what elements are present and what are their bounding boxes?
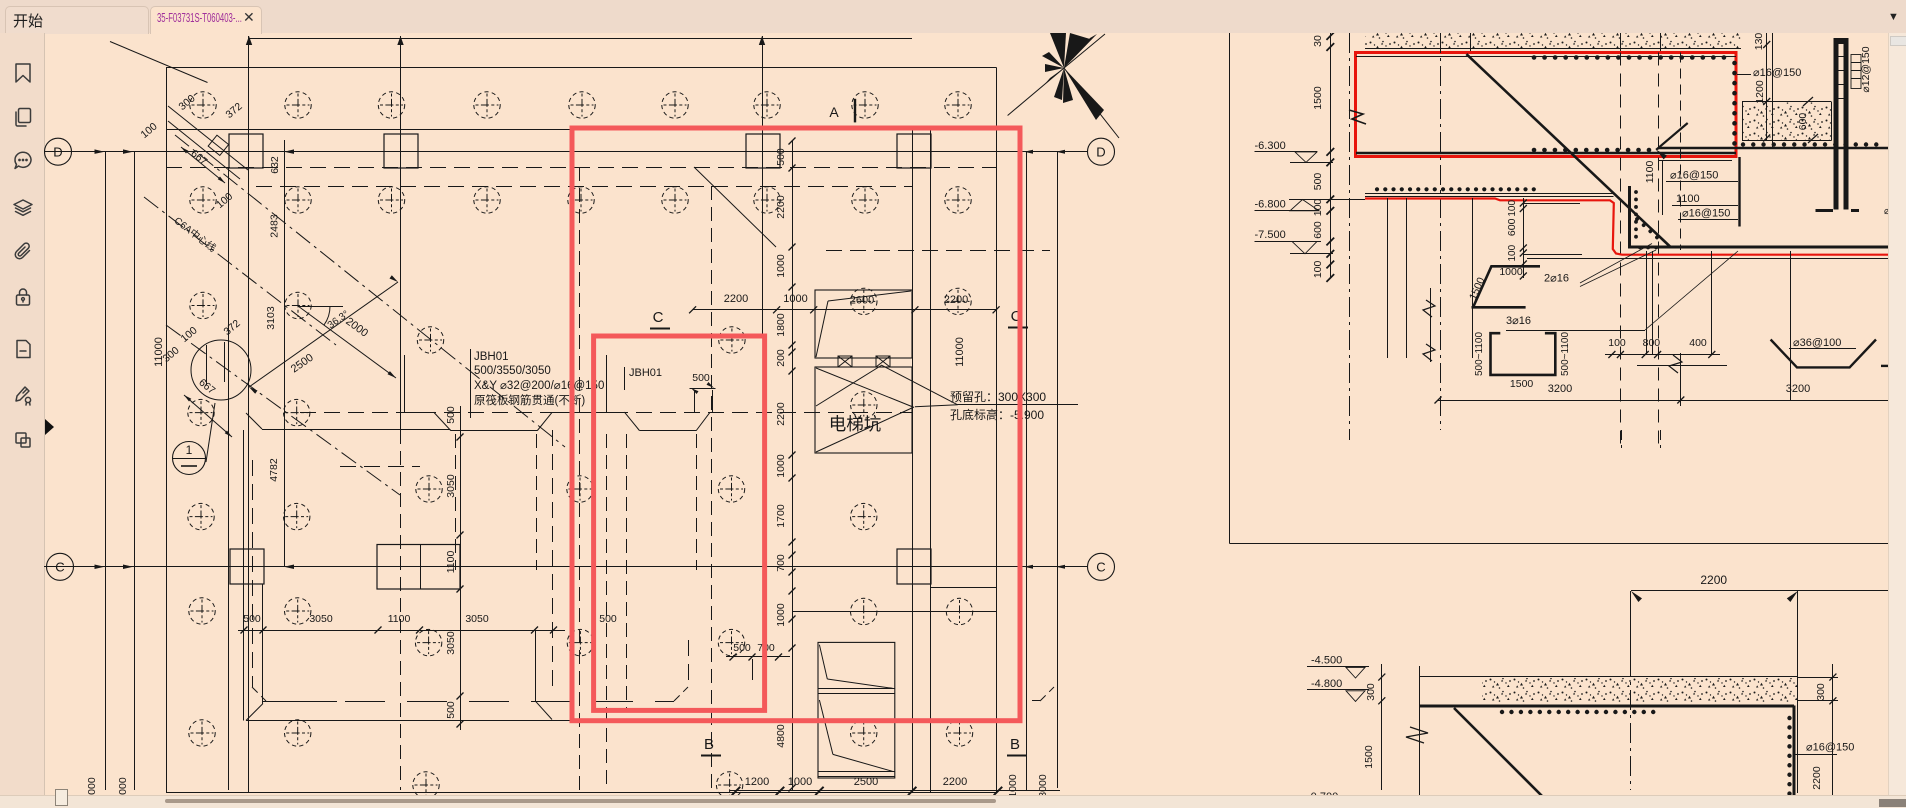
mid dim chain x1523 — [1523, 198, 1525, 278]
sidebar icon paperclip — [12, 241, 34, 263]
svg-text:372: 372 — [224, 100, 245, 121]
pile row y301.4 — [851, 288, 877, 314]
dots row far right — [1743, 142, 1886, 146]
svg-text:1000: 1000 — [1007, 774, 1019, 795]
column square D1 — [229, 134, 263, 168]
left wall vertical — [1419, 666, 1421, 807]
pedestal dashed vertical x537 — [536, 434, 538, 570]
sidebar icon overlap — [12, 429, 34, 451]
JBH01 label inner — [624, 367, 626, 390]
svg-text:C6A中心线: C6A中心线 — [172, 214, 219, 255]
svg-text:500~1100: 500~1100 — [1474, 332, 1485, 376]
scrollbar corner dark box — [1879, 799, 1906, 807]
dim row 100 800 400 — [1605, 354, 1720, 356]
leader from detail bubble — [206, 403, 215, 462]
chain connector lines right — [1523, 203, 1580, 205]
stirrup hook rect — [1851, 55, 1861, 89]
dots on main diagonal lower part — [1637, 219, 1663, 243]
svg-text:600: 600 — [1797, 113, 1809, 131]
svg-text:2200: 2200 — [944, 294, 968, 306]
svg-text:3050: 3050 — [465, 613, 489, 625]
svg-text:2500: 2500 — [289, 352, 316, 376]
horizontal scrollbar thumb — [165, 799, 996, 803]
pile row y642.6 — [415, 629, 441, 655]
big bent bar trapezoid — [1771, 340, 1876, 368]
preformed hole box 2 — [876, 356, 890, 367]
pile cap dashed y467 segment — [340, 466, 420, 468]
svg-text:2600: 2600 — [850, 295, 874, 307]
slab big diagonal — [1454, 708, 1553, 807]
wall thick vertical — [1628, 186, 1631, 246]
svg-text:D: D — [53, 145, 62, 160]
plan frame right edge — [996, 68, 998, 794]
svg-text:500: 500 — [599, 613, 617, 625]
svg-text:500~1100: 500~1100 — [1560, 332, 1571, 376]
svg-text:300: 300 — [1815, 683, 1827, 701]
dim line x284 — [284, 140, 286, 567]
red waterproof polyline — [1365, 199, 1906, 255]
toolbar dropdown arrow — [1888, 11, 1899, 23]
dash-dot vertical x1440 — [1440, 33, 1442, 430]
pedestal outline inner — [606, 355, 608, 412]
bottom thick line — [1628, 246, 1906, 249]
extension verticals 2200 — [1630, 591, 1632, 676]
tab Start label — [13, 10, 43, 31]
svg-text:372: 372 — [222, 317, 243, 338]
svg-text:4782: 4782 — [268, 458, 280, 482]
bent bar detail 1500 — [1474, 266, 1541, 306]
pile cap dashed outline bottom y701 — [345, 701, 674, 703]
C6A centerline dash-dot diagonal — [144, 197, 336, 345]
right vertical scrollbar strip — [1888, 33, 1906, 795]
dim diagonal 2500 — [249, 282, 398, 387]
svg-text:⌀16@150: ⌀16@150 — [1806, 742, 1854, 754]
note underline — [958, 404, 1078, 406]
svg-text:500: 500 — [445, 701, 457, 719]
wall vertical x244 lower — [243, 430, 245, 721]
svg-text:JBH01: JBH01 — [629, 367, 662, 379]
dim 2200 bottom right partial — [1798, 590, 1906, 592]
svg-text:500: 500 — [733, 642, 751, 654]
svg-text:11000: 11000 — [954, 337, 966, 367]
dash-dot vertical x1343 — [1349, 33, 1351, 440]
svg-text:C: C — [653, 309, 664, 326]
svg-text:原筏板钢筋贯通(不断): 原筏板钢筋贯通(不断) — [474, 393, 585, 407]
dim 667 top-left — [181, 147, 225, 183]
svg-text:C: C — [55, 560, 64, 575]
svg-text:1000: 1000 — [788, 776, 812, 788]
svg-text:1: 1 — [186, 443, 193, 457]
elevator pit upper rect — [815, 290, 912, 358]
vertical x1026 — [1026, 152, 1028, 790]
svg-text:⌀36@100: ⌀36@100 — [1793, 337, 1841, 349]
grid dashed vertical x400 lower half — [400, 430, 402, 790]
slab concrete stipple — [1482, 678, 1797, 702]
top horizontal line y38.5 — [249, 38, 912, 40]
pile cap solid edge y701 left — [262, 701, 337, 703]
svg-text:-6.800: -6.800 — [1255, 199, 1286, 211]
vertical scrollbar thumb — [1890, 36, 1906, 46]
svg-text:1700: 1700 — [775, 504, 787, 528]
elevator pit lower diagonals — [816, 368, 913, 407]
svg-text:1500: 1500 — [1312, 86, 1324, 110]
svg-text:632: 632 — [269, 156, 281, 174]
svg-text:130: 130 — [1753, 33, 1765, 50]
short dash before right chamfer — [1032, 700, 1040, 702]
wall vertical x930 — [930, 130, 932, 793]
dim row 2200 1000 2600 2200 — [693, 309, 997, 311]
plan frame left edge — [166, 68, 168, 794]
svg-text:3200: 3200 — [1786, 383, 1810, 395]
svg-text:500/3550/3050: 500/3550/3050 — [474, 365, 551, 377]
dim row 500 3050 1100 3050 500 — [238, 630, 565, 632]
corner chamfer solid — [246, 413, 262, 429]
pile row y340 — [417, 327, 443, 353]
svg-text:2200: 2200 — [1700, 573, 1727, 587]
leaders from 2phi16 — [1580, 244, 1652, 284]
sidebar icon comment — [12, 150, 34, 172]
U channel bar detail — [1491, 333, 1556, 375]
svg-text:300: 300 — [1365, 683, 1377, 701]
left sidebar — [0, 33, 45, 795]
pile cap dashed top edge y412 — [300, 412, 912, 414]
svg-text:A: A — [829, 104, 839, 120]
svg-text:500: 500 — [445, 406, 457, 424]
grid bubble C right — [1088, 553, 1115, 580]
wall dots column — [1634, 192, 1638, 244]
compass radiating line left — [1008, 68, 1064, 116]
grid line D horizontal — [44, 151, 1088, 153]
active tab label — [157, 11, 242, 25]
section area left border — [1229, 33, 1231, 544]
svg-text:1500: 1500 — [1467, 276, 1488, 302]
svg-text:D: D — [1096, 145, 1105, 160]
left dim chain vertical — [1330, 33, 1332, 278]
grid bubble D right — [1088, 138, 1115, 165]
pile row y733 — [189, 720, 215, 746]
leader arrow diagonal — [1656, 123, 1688, 150]
dim 500 700 horizontal — [726, 656, 790, 658]
right rebar dots column — [1732, 63, 1737, 152]
column square D3 — [746, 134, 780, 168]
slab top line 2 — [1365, 196, 1614, 198]
svg-text:2483: 2483 — [269, 214, 281, 238]
sidebar icon lock — [12, 286, 34, 308]
pit dashed vertical x626 — [626, 434, 628, 712]
pile row y516.6 — [188, 503, 214, 529]
stair wedge upper — [819, 645, 827, 679]
pile cap dashed line y251 — [826, 250, 1050, 252]
sidebar icon layers — [12, 197, 34, 219]
compass radiating line right — [1064, 68, 1119, 138]
sidebar icon bookmark — [12, 62, 34, 84]
svg-text:400: 400 — [1689, 337, 1707, 349]
svg-text:3⌀16: 3⌀16 — [1506, 315, 1531, 327]
svg-text:4800: 4800 — [775, 724, 787, 748]
pile cap solid vertical x535.7 — [535, 631, 537, 701]
pile row y305.5 — [190, 292, 216, 318]
svg-text:X&Y ⌀32@200/⌀16@150: X&Y ⌀32@200/⌀16@150 — [474, 380, 604, 392]
svg-text:3000: 3000 — [117, 777, 129, 795]
bottom horizontal scrollbar strip — [0, 795, 1906, 808]
dim chain x460 rotated — [460, 406, 462, 730]
svg-text:500: 500 — [775, 148, 787, 166]
dim vertical x1382 — [1381, 664, 1383, 790]
beam top thin line inside red — [1356, 56, 1736, 58]
svg-text:1500: 1500 — [1510, 378, 1534, 390]
svg-text:1800: 1800 — [775, 313, 787, 337]
column square C1 — [230, 549, 264, 584]
wall break line x1430 — [1430, 288, 1432, 362]
second dash-dot diagonal — [166, 325, 400, 495]
dots along corner diagonal — [1640, 246, 1659, 250]
pile cap chamfer bottom-left — [252, 687, 266, 701]
slab top thin line — [1419, 676, 1798, 678]
wall vertical x762 with top arrow — [762, 36, 764, 336]
svg-text:-4.800: -4.800 — [1311, 678, 1342, 690]
dim 2200 bottom section — [1631, 590, 1798, 592]
svg-text:100: 100 — [1507, 200, 1518, 217]
solid edge y429 — [262, 429, 451, 431]
solid bottom edge y720.5 — [246, 720, 575, 722]
beam bottom thick line — [1356, 152, 1736, 155]
svg-text:100: 100 — [139, 120, 160, 141]
svg-text:30: 30 — [1312, 35, 1324, 47]
dash vertical x1681 — [1680, 53, 1682, 251]
foundation plan outer frame top edge — [166, 67, 997, 69]
leader from 3phi16 — [1506, 330, 1645, 332]
thick vertical x1739 — [1738, 157, 1740, 227]
detail bubble 1 — [173, 442, 206, 475]
wall top edge y129.5 — [166, 129, 575, 131]
slab right thin vertical — [1797, 677, 1799, 793]
wall edge vertical x263 lower — [262, 584, 264, 704]
verticals under slab — [1387, 198, 1389, 358]
stair wedge lower — [819, 700, 833, 754]
leader lines to hole note — [882, 365, 958, 404]
tab Start — [5, 6, 149, 34]
pedestal outline left — [404, 355, 406, 412]
svg-text:3050: 3050 — [309, 613, 333, 625]
svg-text:⌀12@150: ⌀12@150 — [1860, 46, 1872, 92]
bottom dim row 1200 1000 2500 2200 — [730, 790, 1060, 792]
svg-text:600: 600 — [1312, 221, 1324, 239]
dash-dot vertical x1621 — [1620, 53, 1622, 449]
stair flight lines — [818, 688, 895, 690]
svg-text:2200: 2200 — [943, 776, 967, 788]
pit horizontal line y611 — [792, 611, 996, 613]
grid line C horizontal — [44, 566, 1088, 568]
thin vertical x1772 — [1772, 33, 1774, 148]
compass north arrow pinwheel — [1050, 33, 1066, 68]
dim chain vertical x792 — [792, 140, 794, 790]
pile row y611 — [189, 598, 215, 624]
svg-text:1000: 1000 — [783, 293, 807, 305]
slab right thick vertical — [1793, 706, 1796, 808]
main diagonal rebar — [1466, 54, 1670, 246]
elevator pit upper diagonals — [816, 301, 828, 357]
column double square C2 — [377, 545, 460, 590]
slab dots row — [1502, 710, 1662, 714]
pile row y105 — [190, 92, 216, 118]
svg-text:800: 800 — [1643, 337, 1661, 349]
grid bubble C left — [47, 553, 74, 580]
break symbol mid dim — [1669, 355, 1682, 373]
svg-text:500: 500 — [692, 372, 710, 384]
break zigzag on red left edge — [1349, 110, 1366, 124]
svg-text:100: 100 — [1608, 337, 1626, 349]
svg-text:1000: 1000 — [775, 454, 787, 478]
pile row y412.6 — [188, 399, 214, 425]
pile row y785 — [413, 772, 439, 798]
pile row y200 — [190, 187, 216, 213]
concrete stipple band top — [1365, 33, 1741, 49]
pile row y611.5 — [851, 598, 877, 624]
svg-text:100: 100 — [1507, 244, 1518, 261]
svg-text:C: C — [1096, 560, 1105, 575]
grid bubble D left — [45, 138, 72, 165]
inner diagonal near red box — [694, 167, 776, 247]
svg-text:11000: 11000 — [153, 337, 165, 367]
slash arrow on patch — [1803, 97, 1813, 106]
upper thick line right — [1659, 147, 1906, 150]
dim 500 inner — [690, 388, 716, 390]
right edge bar stub — [1881, 365, 1888, 367]
svg-text:1200: 1200 — [745, 776, 769, 788]
pile row y405 — [851, 392, 877, 418]
solid corner chamfer bottom-left — [246, 704, 263, 721]
dim vertical right x1833 — [1832, 664, 1834, 807]
wall edge vertical x229 — [228, 168, 230, 790]
wall vertical x912 — [912, 130, 914, 793]
svg-text:1100: 1100 — [1676, 193, 1700, 205]
compass radiating line up-right — [1064, 34, 1105, 68]
svg-text:预留孔：300X300: 预留孔：300X300 — [950, 390, 1046, 404]
svg-text:孔底标高：-5.900: 孔底标高：-5.900 — [950, 407, 1044, 422]
svg-text:⌀16@150: ⌀16@150 — [1753, 67, 1801, 79]
pile cap dashed vertical x688 — [688, 640, 690, 687]
mid dots row left — [1377, 187, 1540, 191]
svg-text:⌀16@150: ⌀16@150 — [1670, 170, 1718, 182]
dim 667 second — [184, 395, 232, 437]
svg-text:100: 100 — [214, 190, 235, 211]
sidebar icon pages — [12, 106, 34, 128]
svg-text:-7.500: -7.500 — [1255, 229, 1286, 241]
bottom rebar dots row — [1534, 148, 1652, 153]
svg-text:1100: 1100 — [388, 613, 411, 625]
shaft horizontal y587 — [931, 587, 997, 589]
svg-text:500: 500 — [1312, 173, 1324, 191]
svg-text:500: 500 — [243, 613, 261, 625]
slab dots column — [1787, 718, 1791, 800]
section line A vertical — [854, 99, 856, 123]
dim line x1767 — [1766, 33, 1768, 140]
svg-text:B: B — [704, 736, 714, 753]
svg-text:600: 600 — [1506, 218, 1518, 236]
stub verticals above divider — [1621, 430, 1623, 448]
svg-text:1000: 1000 — [1499, 266, 1523, 278]
svg-text:1500: 1500 — [1363, 745, 1375, 769]
left dimension line x135 — [134, 152, 136, 790]
svg-text:1000: 1000 — [775, 603, 787, 627]
svg-text:2200: 2200 — [775, 402, 787, 426]
grid dashed vertical x580 — [579, 167, 581, 790]
verticals through top band — [1470, 33, 1472, 53]
svg-text:电梯坑: 电梯坑 — [829, 414, 882, 434]
svg-text:1000: 1000 — [775, 254, 787, 278]
svg-text:-4.500: -4.500 — [1311, 655, 1342, 667]
pile cap dashed left x252 — [252, 460, 254, 687]
wall vertical x400 with top arrow — [400, 36, 402, 430]
wall diagonal pair top-left — [168, 106, 248, 170]
ladder rungs — [1839, 56, 1844, 58]
svg-text:2⌀16: 2⌀16 — [1544, 273, 1569, 285]
dash-dot vertical x1658 — [1658, 53, 1660, 449]
svg-text:2200: 2200 — [724, 293, 748, 305]
svg-text:200: 200 — [775, 349, 787, 367]
svg-text:1200: 1200 — [1754, 80, 1766, 104]
detail circle around pile — [191, 340, 251, 400]
break symbol on wall — [1406, 727, 1428, 743]
pile cap chamfer right of x535 — [536, 701, 552, 719]
pile cap dashed vertical x552 — [552, 430, 554, 690]
red detail rectangle — [1356, 53, 1737, 157]
pile cap dashed edge y186 — [256, 186, 912, 188]
svg-text:1000: 1000 — [86, 777, 98, 795]
JBH01 text block — [470, 349, 472, 418]
section divider horizontal — [1230, 543, 1906, 545]
long dash-dot diagonal through plan — [175, 135, 565, 447]
wall line below D dashed y167 — [166, 167, 997, 169]
pile row y489 — [416, 476, 442, 502]
tilted square detail top-left — [208, 135, 228, 155]
svg-text:3200: 3200 — [1548, 383, 1572, 395]
svg-text:JBH01: JBH01 — [474, 351, 509, 363]
slab top line — [1365, 193, 1614, 195]
red highlight rectangle large — [572, 128, 1020, 721]
diagonal 2000 with angle — [298, 306, 396, 378]
svg-text:⌀16@150: ⌀16@150 — [1682, 208, 1730, 220]
slab bottom thick — [1419, 705, 1794, 708]
right dim chain x1057 — [1057, 152, 1059, 788]
dash-dot vertical through slab — [1630, 591, 1632, 790]
pile cap chamfer bottom-right — [1040, 687, 1054, 701]
pit dashed vertical x607 — [606, 434, 608, 790]
ladder column bars — [1834, 38, 1839, 210]
column square C3 — [897, 549, 931, 584]
stair rect — [818, 642, 895, 778]
tab close button — [243, 9, 255, 26]
svg-text:2200: 2200 — [1811, 766, 1823, 790]
svg-text:667: 667 — [196, 376, 217, 396]
diagonal from tab corner — [110, 42, 208, 83]
toolbar tab strip — [0, 0, 1906, 33]
svg-text:700: 700 — [775, 554, 787, 572]
extension verticals for dims — [1646, 251, 1648, 355]
svg-text:667: 667 — [188, 147, 209, 167]
pile cap chamfer mid — [674, 687, 688, 701]
active document tab — [150, 6, 262, 34]
plan frame bottom edge — [166, 792, 997, 794]
sidebar expand arrow — [45, 419, 54, 435]
svg-text:-6.300: -6.300 — [1255, 140, 1286, 152]
left dimension line x105 — [105, 152, 107, 790]
svg-text:B: B — [1010, 736, 1020, 753]
svg-text:2200: 2200 — [775, 195, 787, 219]
lower tier line — [1637, 365, 1727, 367]
pedestal dashed vertical x455 — [455, 434, 457, 570]
svg-text:3103: 3103 — [265, 306, 277, 330]
